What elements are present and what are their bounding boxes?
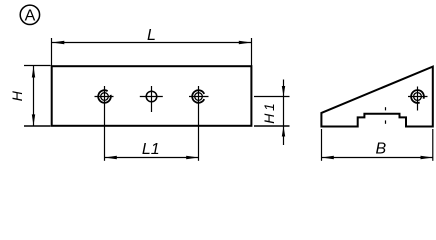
dimension H1 arrow top (outside, pointing down) <box>282 86 285 97</box>
dimension L1 arrow left <box>105 156 117 159</box>
dimension H arrow bottom <box>32 114 35 126</box>
dimension B arrow right <box>421 156 433 159</box>
dimension L1 line <box>105 157 199 159</box>
hole 2 centerline vertical <box>151 86 153 112</box>
svg-text:H: H <box>9 90 25 101</box>
dimension L extension line left <box>51 38 53 66</box>
hole 3 tapped hole inner circle <box>195 93 203 101</box>
dimension H line <box>33 66 35 127</box>
dimension H1 line <box>283 80 285 146</box>
hole 3 centerline horizontal <box>189 96 209 98</box>
dimension L1 arrow right <box>186 156 198 159</box>
svg-text:L1: L1 <box>142 141 160 158</box>
hole 1 centerline vertical (also L1 extension) <box>104 86 106 161</box>
dimension H1 arrow bottom (outside, pointing up) <box>282 126 285 137</box>
side view hole centerline vertical <box>417 87 419 111</box>
hole 1 centerline horizontal <box>95 96 114 98</box>
view label circle A <box>20 5 39 25</box>
hole 3 centerline vertical (also L1 extension) <box>198 86 200 161</box>
side view wedge outline <box>321 67 432 127</box>
hole 1 tapped hole inner circle <box>101 93 109 101</box>
side view hole centerline horizontal <box>408 96 428 98</box>
dimension H extension line top <box>24 65 51 67</box>
svg-text:L: L <box>147 27 156 44</box>
dimension H extension line bottom <box>24 125 51 127</box>
dimension H1 extension line bottom <box>254 125 290 127</box>
dimension L extension line right <box>251 38 253 66</box>
dimension B line <box>322 157 433 159</box>
dimension H arrow top <box>32 66 35 78</box>
front view plate outline <box>52 66 252 126</box>
dimension B extension line right <box>432 129 434 161</box>
hole 2 centerline horizontal <box>140 96 163 98</box>
dimension L arrow left <box>52 41 65 44</box>
hole 2 circle <box>146 91 157 102</box>
side view thread outer arc <box>411 90 424 103</box>
svg-text:H1: H1 <box>261 101 277 124</box>
svg-text:A: A <box>25 8 36 25</box>
side view tapped hole inner circle <box>414 93 422 101</box>
hole 3 thread outer arc <box>192 90 204 103</box>
dimension H1 extension line top <box>254 96 290 98</box>
dimension B extension line left <box>321 129 323 161</box>
dimension L arrow right <box>239 41 252 44</box>
side view tongue centerline (dash-dot) <box>385 107 387 110</box>
hole 1 thread outer arc <box>98 90 111 103</box>
dimension B arrow left <box>322 156 334 159</box>
svg-text:B: B <box>375 141 386 158</box>
dimension L line <box>52 42 252 44</box>
